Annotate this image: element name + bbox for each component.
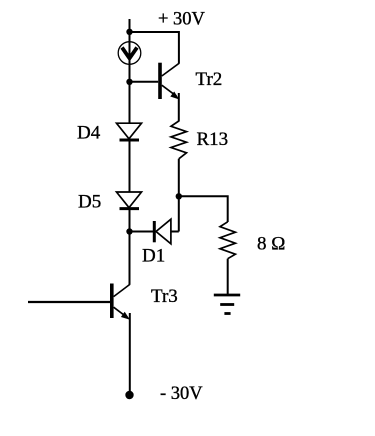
transistor Tr3 <box>110 284 130 320</box>
wire: Tr2 emitter to R13 <box>178 93 180 122</box>
transistor Tr2 <box>158 63 179 100</box>
svg-text:8 Ω: 8 Ω <box>257 234 285 255</box>
resistor 8 ohm <box>220 222 235 259</box>
node: -30V terminal <box>125 391 133 399</box>
svg-text:D1: D1 <box>142 246 165 267</box>
wire: Tr3 emitter to -30V <box>129 313 131 395</box>
svg-text:D5: D5 <box>78 192 101 213</box>
wire: R13 to junction node <box>178 159 180 197</box>
svg-text:Tr2: Tr2 <box>196 69 223 90</box>
current source I1 <box>118 42 141 65</box>
wire: junction down to D1 anode <box>178 196 180 231</box>
svg-text:R13: R13 <box>197 129 229 150</box>
svg-text:Tr3: Tr3 <box>151 286 178 307</box>
wire: D4 to D5 <box>129 140 131 192</box>
wire: 8 ohm resistor to ground <box>227 259 229 295</box>
wire: D1 anode wire <box>171 231 179 233</box>
node: D5 / D1 junction <box>126 228 132 234</box>
wire: D1 cathode to left rail <box>130 231 154 233</box>
ground <box>214 295 240 314</box>
diode D1 <box>154 219 171 244</box>
wire: left rail from +30V stub down to D4 <box>129 19 131 124</box>
wire: Tr3 base wire <box>28 301 110 303</box>
node: +30V junction <box>126 29 132 35</box>
wire: +30V rail to Tr2 collector <box>130 32 179 64</box>
wire: D5 to Tr3 collector <box>129 209 131 285</box>
node: R13 / D1 / load junction <box>176 193 182 199</box>
svg-text:D4: D4 <box>77 123 101 144</box>
diode D5 <box>117 192 142 209</box>
wire: junction to 8 ohm resistor <box>179 196 228 222</box>
svg-text:- 30V: - 30V <box>160 384 203 404</box>
svg-text:+ 30V: + 30V <box>158 10 206 30</box>
node: Tr2 base junction <box>126 79 132 85</box>
resistor R13 <box>171 121 187 159</box>
diode D4 <box>117 123 142 140</box>
wire: Tr2 base wire <box>130 81 159 83</box>
